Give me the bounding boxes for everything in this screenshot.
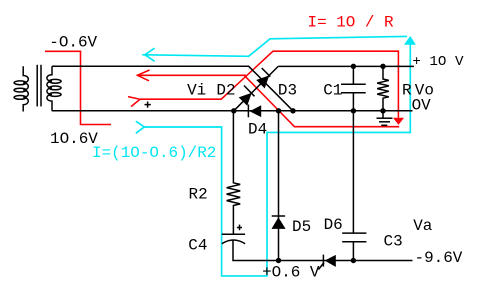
svg-text:C4: C4 (188, 236, 207, 254)
svg-text:OV: OV (412, 96, 432, 114)
svg-text:-O.6V: -O.6V (49, 33, 97, 51)
svg-text:C3: C3 (384, 233, 403, 251)
svg-text:C1: C1 (323, 82, 342, 100)
svg-text:D2: D2 (216, 82, 235, 100)
svg-text:D5: D5 (292, 218, 311, 236)
svg-text:-9.6V: -9.6V (415, 249, 463, 267)
svg-text:R: R (402, 82, 412, 100)
svg-text:I= 1O / R: I= 1O / R (308, 13, 395, 31)
svg-text:Va: Va (413, 217, 433, 235)
svg-text:+O.6 V: +O.6 V (262, 264, 320, 282)
svg-text:D4: D4 (248, 121, 267, 139)
svg-text:Vi: Vi (187, 82, 206, 100)
svg-text:D3: D3 (278, 82, 297, 100)
svg-text:I=(1O-O.6)/R2: I=(1O-O.6)/R2 (92, 144, 216, 162)
svg-text:D6: D6 (324, 216, 343, 234)
svg-text:+ 1O V: + 1O V (412, 54, 464, 70)
svg-text:R2: R2 (189, 185, 208, 203)
